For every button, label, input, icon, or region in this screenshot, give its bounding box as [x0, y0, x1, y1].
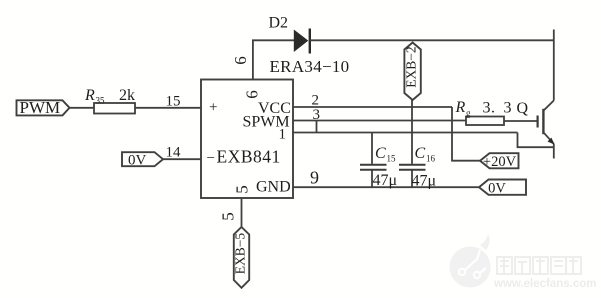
svg-text:EXB−2: EXB−2 [404, 46, 419, 87]
svg-text:www.elecfans.com: www.elecfans.com [493, 278, 596, 290]
svg-text:R: R [84, 87, 95, 104]
svg-text:Q: Q [517, 100, 529, 117]
svg-text:16: 16 [426, 154, 436, 164]
svg-text:g: g [466, 108, 471, 118]
svg-text:15: 15 [166, 94, 181, 110]
svg-text:C: C [415, 145, 426, 162]
svg-text:+: + [209, 100, 217, 116]
svg-text:C: C [375, 145, 386, 162]
svg-text:9: 9 [310, 168, 319, 188]
svg-text:0V: 0V [128, 153, 147, 169]
svg-text:1: 1 [279, 126, 287, 142]
svg-text:+20V: +20V [483, 154, 517, 170]
svg-text:3: 3 [504, 100, 512, 117]
svg-text:6: 6 [231, 56, 250, 65]
svg-text:.: . [491, 100, 495, 117]
svg-text:47μ: 47μ [412, 173, 437, 190]
svg-text:47μ: 47μ [373, 172, 398, 189]
svg-text:15: 15 [387, 154, 397, 164]
svg-text:3: 3 [313, 107, 321, 123]
svg-text:EXB−5: EXB−5 [233, 233, 248, 275]
svg-text:14: 14 [166, 145, 182, 161]
svg-text:3: 3 [483, 100, 491, 117]
svg-text:6: 6 [243, 90, 262, 99]
svg-text:5: 5 [233, 185, 252, 194]
svg-text:D2: D2 [269, 15, 289, 32]
svg-text:GND: GND [256, 179, 291, 196]
svg-text:35: 35 [96, 96, 106, 106]
svg-text:5: 5 [219, 212, 238, 221]
svg-text:−: − [207, 151, 215, 167]
svg-text:ERA34−10: ERA34−10 [270, 57, 350, 76]
svg-text:2k: 2k [119, 87, 135, 104]
svg-text:PWM: PWM [20, 98, 61, 117]
svg-text:R: R [455, 99, 466, 116]
svg-text:0V: 0V [488, 181, 506, 197]
svg-text:EXB841: EXB841 [217, 147, 281, 167]
